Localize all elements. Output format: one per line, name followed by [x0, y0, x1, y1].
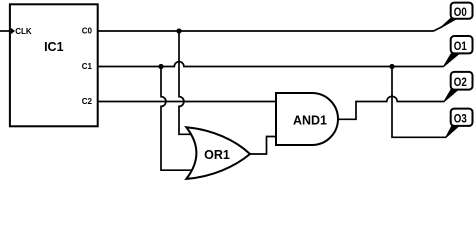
wire CLK input — [0, 30, 10, 32]
svg-text:C0: C0 — [82, 27, 93, 36]
junction dot C1 to O3 branch — [389, 64, 394, 69]
junction dot C0 branch — [176, 28, 181, 33]
AND gate AND1 — [276, 93, 338, 145]
svg-text:O0: O0 — [454, 5, 467, 19]
wire AND1 output to O2 with hop at x=392 — [338, 96, 444, 119]
junction dot C1 branch — [158, 64, 163, 69]
label AND1 — [293, 113, 327, 127]
output flag O1 — [444, 36, 473, 66]
OR gate OR1 — [186, 127, 250, 179]
label OR1 — [204, 148, 230, 162]
svg-text:O3: O3 — [454, 112, 467, 126]
output flag O2 — [444, 72, 472, 102]
wire C2 row from IC1 to AND1 with hops at x=161 and x=179 — [98, 101, 276, 103]
wire OR1 output to AND1 lower input — [249, 137, 276, 155]
wire C1 branch to O3 — [392, 67, 446, 138]
wire C1 branch vertical to OR1 lower input — [161, 67, 193, 171]
svg-text:IC1: IC1 — [44, 40, 64, 54]
IC U IC1 body — [10, 4, 98, 126]
svg-text:OR1: OR1 — [204, 148, 230, 162]
svg-text:C1: C1 — [82, 62, 93, 71]
svg-text:C2: C2 — [82, 97, 93, 106]
output flag O0 — [433, 3, 473, 32]
svg-text:CLK: CLK — [15, 27, 32, 36]
pin label C2 — [82, 97, 93, 106]
wire C0 row from IC1 to O0 — [98, 30, 433, 32]
clock wedge on CLK pin — [11, 28, 15, 34]
svg-text:O1: O1 — [454, 39, 467, 53]
pin label C1 — [82, 62, 93, 71]
svg-text:O2: O2 — [454, 75, 467, 89]
pin label C0 — [82, 27, 93, 36]
wire C1 row from IC1 to O1 with hop at x=179 — [98, 62, 444, 67]
pin label CLK — [15, 27, 32, 36]
wire C0 branch vertical to OR1 upper input — [179, 31, 192, 134]
svg-text:AND1: AND1 — [293, 113, 327, 127]
output flag O3 — [446, 109, 473, 138]
label IC1 — [44, 40, 64, 54]
